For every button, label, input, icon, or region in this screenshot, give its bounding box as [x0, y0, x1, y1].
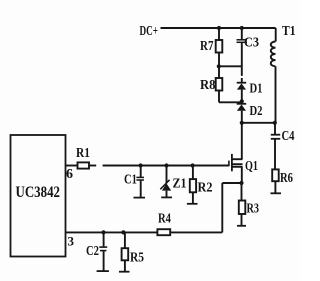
resistor R7: [200, 28, 222, 66]
diode D2: [237, 101, 263, 123]
svg-text:D1: D1: [250, 82, 263, 97]
node junction dot drain: [240, 121, 244, 125]
node junction dot top rail R7: [217, 26, 221, 30]
svg-text:R1: R1: [76, 146, 90, 161]
node junction dot top rail C3: [240, 26, 244, 30]
node junction dot C1: [139, 163, 143, 167]
svg-text:Q1: Q1: [245, 159, 258, 174]
svg-text:R6: R6: [280, 171, 293, 186]
wire D2 junction to C4 column: [242, 122, 275, 124]
resistor R3: [237, 183, 259, 226]
svg-text:D2: D2: [250, 104, 263, 119]
diode D1: [237, 67, 263, 101]
svg-text:UC3842: UC3842: [16, 184, 61, 201]
node junction dot R5: [121, 230, 125, 234]
resistor R2: [187, 166, 213, 204]
wire vertical down to R4 line: [221, 183, 223, 232]
zener diode Z1: [160, 166, 186, 198]
svg-text:T1: T1: [282, 24, 296, 39]
svg-text:3: 3: [68, 234, 75, 249]
svg-text:R5: R5: [130, 251, 144, 266]
svg-text:C3: C3: [244, 36, 259, 51]
wire R1 to gap: [89, 165, 96, 167]
svg-text:R4: R4: [158, 212, 171, 227]
svg-text:R2: R2: [198, 181, 213, 196]
node junction dot R2: [191, 163, 195, 167]
wire pin3 line left: [66, 231, 158, 233]
wire R7 bottom to C3 bottom: [219, 65, 242, 67]
svg-text:C4: C4: [282, 129, 295, 144]
svg-text:6: 6: [66, 167, 73, 182]
wire source to left vertical: [222, 182, 241, 184]
node junction dot source: [239, 181, 243, 185]
node junction dot D1-D2: [240, 99, 244, 103]
node junction dot Z1: [164, 163, 168, 167]
wire R4 to vertical: [170, 231, 222, 233]
svg-text:DC+: DC+: [140, 24, 159, 39]
capacitor C4: [271, 123, 295, 170]
svg-text:R3: R3: [247, 202, 260, 217]
wire R8 bottom to D1-D2 junction: [219, 101, 242, 103]
transistor Q1: [229, 123, 258, 183]
node junction dot R7 bottom: [217, 64, 221, 68]
wire pin6 to R1: [66, 165, 78, 167]
svg-text:C2: C2: [86, 244, 99, 259]
capacitor C1: [124, 166, 145, 198]
node junction dot right column: [273, 121, 277, 125]
wire gate line: [103, 165, 229, 167]
capacitor C2: [86, 232, 109, 271]
transformer T1: [271, 24, 296, 123]
node junction dot C2: [101, 230, 105, 234]
resistor R1: [76, 146, 90, 169]
resistor R8: [200, 66, 222, 102]
resistor R6: [271, 169, 294, 193]
resistor R4: [157, 212, 171, 236]
capacitor C3: [237, 28, 260, 67]
svg-text:R8: R8: [200, 78, 216, 93]
svg-text:R7: R7: [200, 39, 214, 54]
IC U1 UC3842 box: [11, 135, 66, 257]
svg-text:Z1: Z1: [173, 177, 187, 192]
wire top rail DC+ to T1: [161, 27, 276, 29]
svg-text:C1: C1: [124, 173, 137, 188]
resistor R5: [119, 232, 144, 271]
